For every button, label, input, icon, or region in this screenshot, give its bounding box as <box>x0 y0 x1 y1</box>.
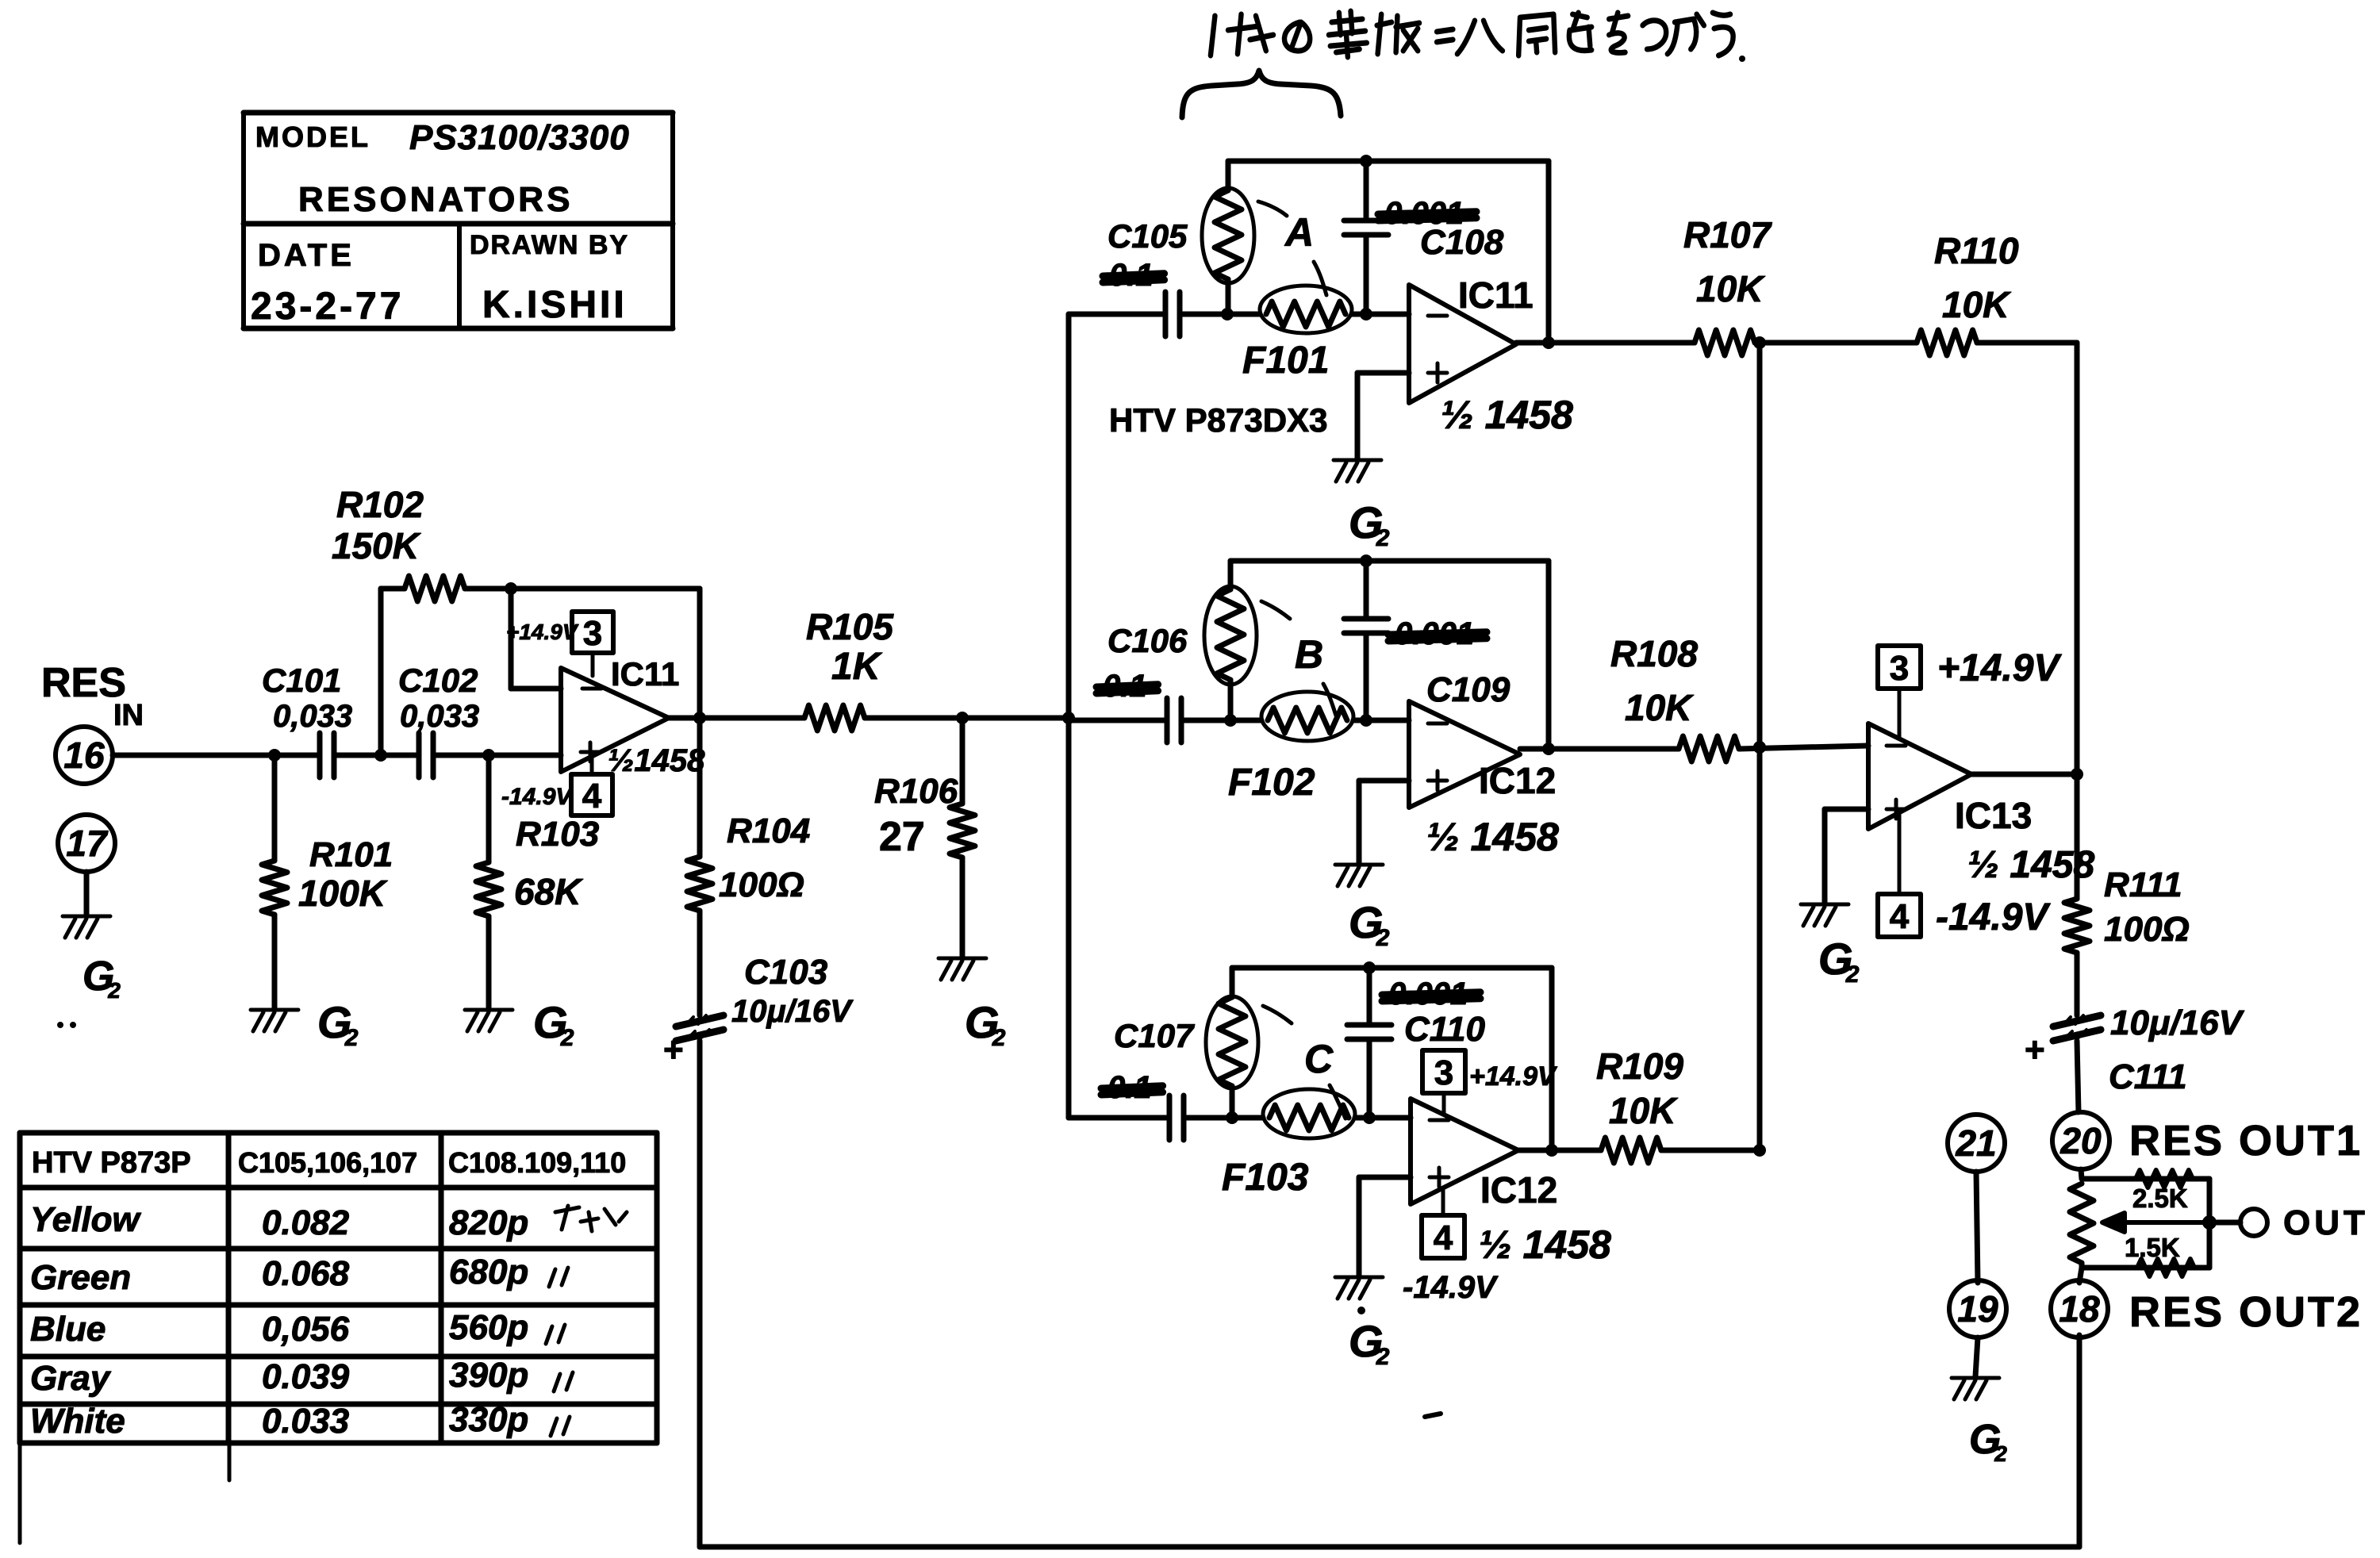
svg-text:+14.9V: +14.9V <box>506 620 579 644</box>
svg-text:390p: 390p <box>449 1356 528 1395</box>
svg-text:21: 21 <box>1955 1122 1996 1164</box>
svg-text:R104: R104 <box>727 812 810 850</box>
svg-text:20: 20 <box>2059 1120 2102 1161</box>
svg-text:10K: 10K <box>1625 687 1694 728</box>
svg-text:Blue: Blue <box>30 1310 106 1349</box>
svg-text:R101: R101 <box>309 835 393 874</box>
svg-text:10K: 10K <box>1696 268 1765 309</box>
svg-text:½1458: ½1458 <box>608 743 705 778</box>
svg-text:F101: F101 <box>1242 340 1329 382</box>
svg-text:R102: R102 <box>336 484 424 525</box>
svg-text:IC11: IC11 <box>1458 274 1534 316</box>
svg-text:19: 19 <box>1957 1288 1998 1330</box>
svg-text:-14.9V: -14.9V <box>501 784 574 810</box>
svg-text:RES OUT2: RES OUT2 <box>2129 1288 2363 1336</box>
svg-text:2: 2 <box>560 1025 574 1051</box>
svg-text:150K: 150K <box>332 525 421 566</box>
svg-text:+14.9V: +14.9V <box>1937 647 2062 689</box>
svg-text:3: 3 <box>583 614 602 653</box>
svg-text:IC11: IC11 <box>611 655 679 693</box>
svg-text:C111: C111 <box>2109 1057 2187 1096</box>
svg-text:2: 2 <box>344 1025 359 1051</box>
svg-text:2: 2 <box>992 1025 1006 1051</box>
svg-text:0.039: 0.039 <box>262 1357 350 1396</box>
svg-text:0.068: 0.068 <box>262 1254 350 1293</box>
svg-text:0,056: 0,056 <box>262 1310 350 1349</box>
svg-text:10μ/16V: 10μ/16V <box>2110 1003 2245 1042</box>
svg-text:C108: C108 <box>1420 223 1504 262</box>
svg-text:R105: R105 <box>806 606 894 647</box>
svg-text:3: 3 <box>1434 1053 1453 1092</box>
svg-text:0,033: 0,033 <box>400 699 479 734</box>
svg-text:F103: F103 <box>1222 1157 1309 1199</box>
svg-text:½ 1458: ½ 1458 <box>1426 815 1559 859</box>
svg-text:DATE: DATE <box>258 238 355 273</box>
svg-text:17: 17 <box>66 823 109 864</box>
svg-text:HTV P873DX3: HTV P873DX3 <box>1109 401 1327 439</box>
svg-text:C101: C101 <box>262 662 341 699</box>
svg-text:+: + <box>663 1030 684 1069</box>
svg-text:RESONATORS: RESONATORS <box>298 180 573 219</box>
svg-text:C103: C103 <box>744 953 827 992</box>
svg-text:F102: F102 <box>1228 762 1315 804</box>
svg-text:Yellow: Yellow <box>30 1200 142 1239</box>
svg-text:R108: R108 <box>1610 633 1698 674</box>
svg-text:560p: 560p <box>449 1308 528 1347</box>
svg-text:White: White <box>30 1402 125 1441</box>
svg-text:C105,106,107: C105,106,107 <box>238 1146 417 1179</box>
svg-text:R111: R111 <box>2104 865 2182 904</box>
svg-text:IC12: IC12 <box>1479 760 1556 801</box>
svg-text:100K: 100K <box>298 873 388 914</box>
svg-text:+: + <box>2025 1030 2045 1069</box>
svg-text:-14.9V: -14.9V <box>1403 1270 1499 1305</box>
svg-text:18: 18 <box>2059 1288 2100 1330</box>
svg-text:0,033: 0,033 <box>273 699 352 734</box>
svg-text:C105: C105 <box>1107 217 1188 255</box>
svg-text:16: 16 <box>63 735 105 776</box>
svg-text:½ 1458: ½ 1458 <box>1479 1222 1611 1267</box>
svg-text:3: 3 <box>1890 649 1909 688</box>
svg-text:1.5K: 1.5K <box>2125 1233 2180 1262</box>
svg-text:1K: 1K <box>831 646 883 688</box>
svg-text:C106: C106 <box>1107 622 1188 659</box>
svg-text:2: 2 <box>107 978 121 1003</box>
svg-text:+14.9V: +14.9V <box>1469 1061 1558 1092</box>
svg-text:100Ω: 100Ω <box>2104 910 2190 949</box>
svg-text:HTV P873P: HTV P873P <box>32 1146 191 1180</box>
svg-text:RES OUT1: RES OUT1 <box>2129 1117 2363 1165</box>
svg-text:2: 2 <box>1994 1441 2007 1466</box>
svg-text:C110: C110 <box>1404 1010 1485 1049</box>
svg-text:10K: 10K <box>1942 284 2011 325</box>
svg-text:C107: C107 <box>1114 1017 1195 1054</box>
svg-text:-14.9V: -14.9V <box>1936 896 2051 938</box>
svg-text:R107: R107 <box>1683 214 1772 255</box>
svg-text:0.082: 0.082 <box>262 1203 350 1242</box>
svg-text:100Ω: 100Ω <box>719 865 804 904</box>
svg-text:R110: R110 <box>1934 230 2019 271</box>
svg-text:23-2-77: 23-2-77 <box>251 286 404 328</box>
svg-text:IC13: IC13 <box>1955 795 2032 836</box>
svg-text:C108.109,110: C108.109,110 <box>448 1146 626 1179</box>
svg-text:C: C <box>1304 1037 1334 1081</box>
svg-text:2: 2 <box>1376 925 1390 951</box>
svg-text:K.ISHII: K.ISHII <box>482 284 628 326</box>
svg-text:Green: Green <box>30 1258 131 1297</box>
svg-text:DRAWN BY: DRAWN BY <box>470 230 629 260</box>
svg-text:Gray: Gray <box>30 1359 112 1398</box>
svg-text:2: 2 <box>1376 525 1390 551</box>
svg-text:R106: R106 <box>874 772 958 811</box>
svg-text:½ 1458: ½ 1458 <box>1441 393 1573 437</box>
svg-text:PS3100/3300: PS3100/3300 <box>409 118 630 157</box>
svg-text:C102: C102 <box>398 662 478 699</box>
svg-text:B: B <box>1295 632 1323 677</box>
svg-text:4: 4 <box>582 777 602 815</box>
svg-text:IN: IN <box>113 699 144 732</box>
svg-text:OUT: OUT <box>2283 1203 2369 1242</box>
svg-text:68K: 68K <box>514 871 583 912</box>
svg-text:10μ/16V: 10μ/16V <box>731 994 854 1029</box>
svg-text:27: 27 <box>879 814 925 860</box>
svg-text:10K: 10K <box>1609 1090 1678 1131</box>
svg-text:R109: R109 <box>1596 1046 1683 1087</box>
svg-text:2: 2 <box>1845 961 1860 988</box>
svg-text:R103: R103 <box>516 815 599 854</box>
svg-text:IC12: IC12 <box>1480 1169 1557 1211</box>
svg-text:2: 2 <box>1376 1344 1390 1370</box>
svg-text:4: 4 <box>1434 1218 1453 1257</box>
svg-text:330p: 330p <box>449 1400 528 1439</box>
svg-text:MODEL: MODEL <box>255 121 370 153</box>
svg-text:820p: 820p <box>449 1203 528 1242</box>
svg-text:4: 4 <box>1890 897 1910 936</box>
svg-text:2.5K: 2.5K <box>2132 1184 2188 1213</box>
svg-text:C109: C109 <box>1426 670 1511 709</box>
svg-text:0.033: 0.033 <box>262 1402 349 1441</box>
svg-text:680p: 680p <box>449 1253 528 1291</box>
